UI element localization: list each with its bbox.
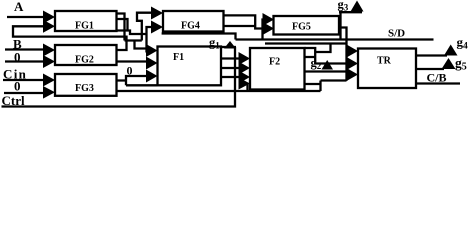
arrowhead TR in2 — [347, 57, 359, 70]
arrowhead F1 in1 — [146, 44, 158, 57]
arrowhead FG3 in1 — [43, 74, 55, 87]
arrowhead F2 in4 (ctrl) — [239, 78, 251, 90]
wire staircase to FG4 in1 — [125, 13, 153, 41]
wire Ctrl input — [2, 47, 236, 107]
wire FG3 out1 to F1 in3 — [116, 76, 158, 85]
svg-text:0: 0 — [127, 64, 133, 78]
wire FG1 in2 feedback (from FG2 out1) — [13, 26, 127, 50]
arrowhead F2 in2 — [239, 62, 251, 75]
arrowhead FG5 in2 — [263, 22, 275, 35]
triangle marker g4 — [444, 45, 458, 56]
wire FG5 out2 down the x346.5 bus — [265, 28, 349, 81]
arrowhead F2 in1 — [239, 52, 251, 65]
wire TR out1 to g4 — [416, 54, 447, 56]
svg-text:FG1: FG1 — [75, 21, 94, 32]
svg-text:A: A — [14, 0, 24, 14]
box FG2 — [55, 45, 117, 65]
svg-text:Ctrl: Ctrl — [2, 93, 25, 108]
wire g1 stub on F1 top — [221, 46, 236, 48]
svg-text:0: 0 — [14, 50, 21, 65]
svg-text:g1: g1 — [209, 36, 220, 51]
arrowhead TR in3 — [347, 68, 359, 81]
wire FG5 in1 riser — [263, 20, 266, 40]
box F2 — [250, 48, 305, 90]
triangle marker g2 — [322, 60, 334, 70]
box FG5 — [274, 16, 340, 35]
svg-text:g2: g2 — [311, 56, 322, 71]
wire F2 out3 jog — [305, 81, 347, 92]
svg-text:FG5: FG5 — [292, 22, 311, 33]
wire B input — [5, 48, 45, 50]
box F1 — [158, 47, 222, 86]
svg-text:C/B: C/B — [427, 71, 447, 85]
wire F1 out2 to F2 in2 — [221, 67, 241, 69]
wire FG2 out2 to F1 in2 — [116, 60, 149, 62]
wire F1 out3 to F2 in3 — [221, 76, 241, 78]
wire F1 out1 to F2 in1 — [221, 57, 241, 59]
arrowhead FG2 in1 — [43, 44, 55, 57]
wire S/D long line — [236, 38, 434, 40]
svg-text:FG4: FG4 — [181, 21, 200, 32]
arrowhead FG3 in2 — [43, 86, 55, 99]
svg-text:S/D: S/D — [388, 28, 405, 40]
arrowhead TR in1 — [347, 45, 359, 58]
svg-text:TR: TR — [377, 56, 392, 67]
wire g3 stub — [339, 12, 362, 39]
wire A input — [7, 16, 45, 18]
wire FG1 out1 — [116, 14, 125, 41]
arrowhead FG4 in1 — [151, 7, 163, 20]
wire F2 out2 to g2 and TR in3 — [305, 72, 349, 75]
wire FG3 out2 long line — [116, 84, 321, 92]
box FG4 — [163, 11, 224, 32]
svg-text:F2: F2 — [269, 57, 280, 68]
arrowhead FG2 in2 — [43, 55, 55, 68]
arrowhead F1 in2 — [146, 57, 158, 70]
arrowhead F1 in3 — [146, 70, 158, 83]
wire FG4 out2 — [224, 25, 255, 27]
wire Cin input — [3, 79, 45, 81]
svg-text:FG3: FG3 — [75, 83, 94, 94]
triangle marker g5 — [442, 58, 456, 69]
wire 0 input to FG2 — [5, 60, 45, 62]
arrowhead FG1 in1 — [43, 11, 55, 24]
svg-text:0: 0 — [14, 79, 21, 94]
wire FG5 out1 — [339, 19, 342, 21]
svg-text:F1: F1 — [173, 52, 184, 63]
triangle marker g3 — [351, 1, 364, 12]
wire vertical x146.5 FG4 in2 / F1 in1 lower — [147, 27, 153, 53]
wire FG4 out1 to FG5 in2 — [224, 15, 265, 28]
box FG3 — [55, 74, 117, 96]
svg-text:g3: g3 — [338, 0, 349, 13]
wire F2 out1 and top-ext to TR in2 — [305, 48, 349, 64]
wire to F1 in1 — [135, 41, 150, 49]
wire TR out2 to g5 — [416, 68, 444, 70]
wire NET-X under FG4 to S/D — [162, 34, 236, 40]
arrowhead FG4 in2 — [151, 21, 163, 34]
arrowhead F2 in3 — [239, 71, 251, 84]
arrowhead FG5 in1 — [263, 13, 275, 26]
svg-text:g5: g5 — [455, 56, 467, 73]
svg-text:FG2: FG2 — [75, 55, 94, 66]
box TR — [358, 49, 416, 89]
svg-text:g4: g4 — [457, 35, 469, 52]
triangle marker g1 — [224, 41, 236, 49]
wire 0 input to FG3 — [4, 92, 45, 94]
wire FG1 out2 — [116, 19, 128, 31]
box FG1 — [55, 11, 117, 31]
wire FG1 bottom stub — [116, 31, 147, 35]
arrowhead FG1 in2 — [43, 20, 55, 33]
wire TR out3 C/B — [416, 82, 460, 84]
